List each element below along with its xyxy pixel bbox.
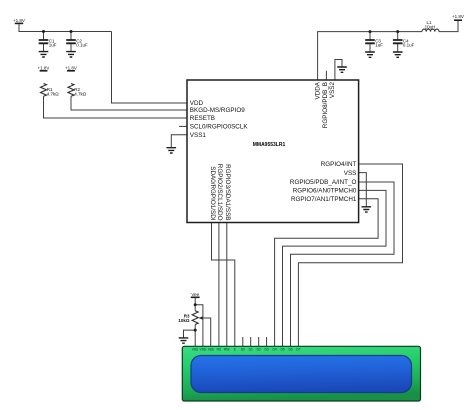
svg-text:RESETB: RESETB	[190, 115, 215, 122]
svg-text:RS: RS	[217, 348, 221, 352]
svg-text:VSS: VSS	[192, 348, 198, 352]
svg-text:RGPIO7/AN1/TPMCH1: RGPIO7/AN1/TPMCH1	[291, 196, 357, 203]
svg-text:D5: D5	[280, 348, 284, 352]
svg-text:RGPIO2/SCL1/SDO: RGPIO2/SCL1/SDO	[216, 164, 223, 221]
svg-text:VSS2: VSS2	[329, 82, 336, 99]
svg-text:10kΩ: 10kΩ	[178, 318, 190, 323]
svg-text:VSS1: VSS1	[190, 132, 207, 139]
svg-text:D2: D2	[257, 348, 261, 352]
svg-text:+1.8V: +1.8V	[38, 65, 50, 70]
svg-text:D4: D4	[273, 348, 277, 352]
svg-text:4.7kΩ: 4.7kΩ	[74, 92, 87, 97]
svg-text:0.1uF: 0.1uF	[403, 43, 415, 48]
svg-text:VDD: VDD	[190, 100, 204, 107]
svg-text:RGPIO8/PDB_B: RGPIO8/PDB_B	[322, 82, 329, 128]
svg-text:BKGD-MS/RGPIO9: BKGD-MS/RGPIO9	[190, 107, 245, 114]
svg-text:SDA0/RGPIO1/SDI: SDA0/RGPIO1/SDI	[209, 166, 216, 220]
svg-text:E: E	[234, 348, 236, 352]
svg-text:D6: D6	[288, 348, 292, 352]
svg-text:+1.8V: +1.8V	[65, 65, 77, 70]
svg-text:VDDA: VDDA	[314, 81, 321, 99]
svg-text:D3: D3	[265, 348, 269, 352]
svg-text:MMA9553LR1: MMA9553LR1	[253, 142, 286, 148]
svg-text:0.1uF: 0.1uF	[76, 43, 88, 48]
svg-text:D0: D0	[241, 348, 245, 352]
svg-text:SCL0/RGPIO0SCLK: SCL0/RGPIO0SCLK	[190, 124, 249, 131]
svg-text:RGPIO4/INT: RGPIO4/INT	[321, 161, 357, 168]
svg-text:RGPIO3/SDA1/SSB: RGPIO3/SDA1/SSB	[224, 164, 231, 220]
svg-text:VEE: VEE	[208, 348, 214, 352]
svg-text:4.7kΩ: 4.7kΩ	[47, 92, 60, 97]
svg-text:+1.8V: +1.8V	[452, 14, 464, 19]
svg-text:RGPIO5/PDB_A/INT_O: RGPIO5/PDB_A/INT_O	[290, 179, 357, 186]
svg-text:VSS: VSS	[344, 170, 357, 177]
svg-text:1uF: 1uF	[49, 43, 57, 48]
svg-text:RW: RW	[224, 348, 229, 352]
svg-text:VDD: VDD	[200, 348, 207, 352]
svg-text:D7: D7	[296, 348, 300, 352]
svg-text:1uF: 1uF	[375, 43, 383, 48]
svg-text:D1: D1	[249, 348, 253, 352]
svg-text:+1.8V: +1.8V	[13, 18, 25, 23]
svg-text:10uH: 10uH	[425, 25, 436, 30]
svg-text:RGPIO6/AN0TPMCH0: RGPIO6/AN0TPMCH0	[293, 188, 357, 195]
svg-text:Vee: Vee	[191, 292, 199, 297]
